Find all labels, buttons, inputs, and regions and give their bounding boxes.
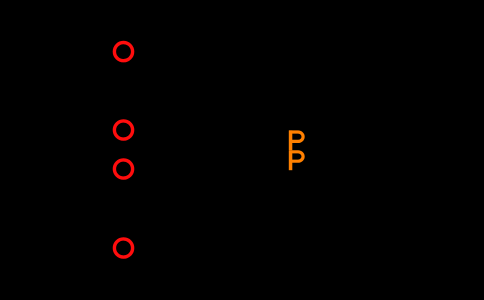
atom P2 (lower phosphorus) : stem (289, 150, 293, 170)
atom O3 (lower middle oxygen) (114, 160, 132, 178)
atom P1 (upper phosphorus) : stem (289, 130, 293, 150)
atom O4 (bottom oxygen) (114, 239, 132, 257)
atom P1 (upper phosphorus) : bowl (289, 132, 303, 141)
atom O2 (upper middle oxygen) (114, 121, 132, 139)
atom O1 (top oxygen) (114, 43, 132, 61)
atom P2 (lower phosphorus) : bowl (289, 152, 303, 161)
